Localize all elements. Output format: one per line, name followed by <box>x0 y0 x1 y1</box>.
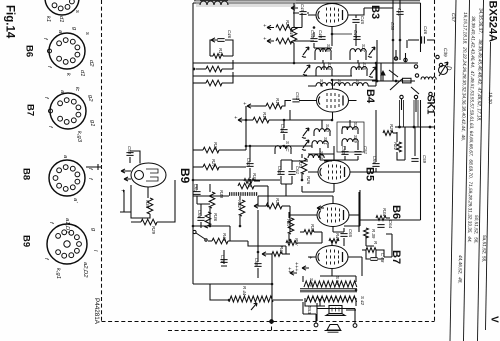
resistor R42 <box>266 246 290 256</box>
svg-text:C40: C40 <box>318 30 323 39</box>
tube socket B7 <box>43 87 95 143</box>
resistor R21 <box>383 124 397 135</box>
svg-text:R24: R24 <box>285 20 290 29</box>
svg-text:C64: C64 <box>388 220 393 229</box>
svg-text:+: + <box>261 37 267 40</box>
svg-text:R38: R38 <box>219 190 224 199</box>
capacitor C46a <box>217 39 224 42</box>
node dot rail A <box>193 68 196 71</box>
tube socket B9 (noval with centre spigot) <box>43 218 98 279</box>
svg-text:S15: S15 <box>362 62 367 70</box>
svg-text:R36: R36 <box>213 213 218 222</box>
resistor R34 with C64 <box>376 208 393 229</box>
svg-text:R36: R36 <box>145 200 150 209</box>
resistor R34 <box>364 228 376 239</box>
svg-text:C50: C50 <box>127 146 132 155</box>
rail y180 <box>193 179 280 181</box>
svg-text:S38: S38 <box>353 122 358 130</box>
arrow to AVC <box>211 38 218 42</box>
svg-text:R42: R42 <box>279 246 284 255</box>
svg-text:R32: R32 <box>237 200 242 209</box>
halftone patch over aerial coil <box>196 0 296 7</box>
svg-text:C50: C50 <box>310 30 315 39</box>
svg-text:C62: C62 <box>246 158 251 167</box>
svg-text:ic: ic <box>74 87 80 91</box>
svg-text:S NC: S NC <box>285 141 290 152</box>
ruler line 3 <box>478 0 484 341</box>
terminal right <box>353 324 357 328</box>
resistor R30 <box>244 173 260 183</box>
svg-text:C69: C69 <box>254 258 259 267</box>
resistor R22 vertical <box>393 132 405 160</box>
svg-text:RW: RW <box>294 238 299 246</box>
svg-text:B9: B9 <box>21 235 32 247</box>
svg-text:R34: R34 <box>382 208 387 217</box>
resistor R10 <box>196 68 206 70</box>
svg-text:R 39: R 39 <box>371 229 376 239</box>
capacitor C63 <box>193 184 201 204</box>
label B7 <box>390 250 402 264</box>
svg-text:R14: R14 <box>262 112 267 121</box>
output transformer primary <box>304 281 357 287</box>
magic eye B9 <box>121 151 166 196</box>
B5 screen wire <box>358 192 360 232</box>
resistor R43 <box>208 233 248 244</box>
set type BX524A <box>487 1 499 43</box>
ruler line 4 <box>486 42 491 330</box>
ruler line 2 <box>464 0 470 341</box>
svg-text:C57: C57 <box>451 13 456 22</box>
svg-text:SK1: SK1 <box>425 95 436 115</box>
capacitor C69 <box>254 252 262 278</box>
IF can S38/S39 <box>342 122 358 146</box>
wire C45 down to can S17 <box>355 30 357 46</box>
svg-text:R43: R43 <box>222 233 227 242</box>
capacitor C40 <box>318 30 326 39</box>
trimmer on S40 <box>302 128 309 138</box>
svg-text:C59: C59 <box>422 155 427 164</box>
chassis dashed border bottom <box>102 321 435 323</box>
svg-text:C66: C66 <box>197 210 202 219</box>
resistor R39 <box>362 241 384 257</box>
capacitor C54 <box>280 120 288 140</box>
resistor R41 <box>286 238 299 246</box>
output transformer secondary <box>306 296 357 302</box>
resistor R26 <box>193 142 246 153</box>
small coils S10 S5 S9 <box>316 79 368 87</box>
triode B3 <box>308 4 356 35</box>
svg-text:R26: R26 <box>306 176 311 185</box>
svg-text:S53: S53 <box>307 306 312 314</box>
resistor R37 vertical <box>286 212 294 240</box>
svg-text:B6: B6 <box>390 205 402 219</box>
svg-text:D: D <box>445 66 451 71</box>
connecting wires bottom <box>210 254 356 322</box>
svg-text:R22: R22 <box>393 142 398 151</box>
svg-text:Fig.14: Fig.14 <box>4 5 16 39</box>
label B6 <box>390 205 402 219</box>
rail y230 <box>193 226 230 241</box>
svg-text:B5: B5 <box>364 167 376 181</box>
resistor R24 with + feed <box>261 13 302 30</box>
wire B3 anode to C48 line <box>348 8 393 15</box>
svg-text:k1: k1 <box>45 16 51 22</box>
wave switch SK1 <box>372 40 443 128</box>
socket label B8 <box>21 168 32 180</box>
SK1 wiper line <box>389 70 398 77</box>
dashed mains lead <box>168 322 318 331</box>
svg-text:B7: B7 <box>25 104 36 116</box>
resistor R27 <box>193 159 246 170</box>
svg-text:R29: R29 <box>151 226 156 235</box>
capacitor C61 <box>288 160 300 184</box>
misc verticals <box>197 186 384 259</box>
label B4 <box>364 89 376 104</box>
svg-text:a2,D2: a2,D2 <box>82 262 88 278</box>
label S42 <box>360 296 365 306</box>
junction dot on dashed border <box>270 320 274 324</box>
label SK1 <box>425 95 436 115</box>
resistor R14 with + feed <box>232 110 290 123</box>
SK1 up arrow <box>380 70 386 81</box>
svg-text:C48: C48 <box>397 8 402 17</box>
svg-text:C65: C65 <box>348 229 353 238</box>
terminal left <box>314 323 318 327</box>
feed arrows left of transformer <box>286 267 297 275</box>
svg-text:44,46,52, 48,: 44,46,52, 48, <box>457 255 462 284</box>
svg-text:S40: S40 <box>325 124 330 132</box>
wire junction x246 <box>245 106 247 150</box>
resistor R38 vertical <box>209 184 224 214</box>
resistor R40 vertical <box>293 3 295 27</box>
supply rail +A <box>193 62 418 64</box>
wire C50a down to S16 <box>314 48 332 52</box>
svg-text:C54: C54 <box>280 124 285 133</box>
svg-text:V: V <box>489 316 500 323</box>
ground arrow R42 <box>262 252 269 256</box>
svg-text:B9: B9 <box>178 168 192 184</box>
label B3 <box>369 5 381 19</box>
antenna line C58 <box>390 0 395 70</box>
svg-text:R 44: R 44 <box>242 286 247 296</box>
transformer core <box>300 289 357 292</box>
svg-text:S17: S17 <box>361 44 366 52</box>
capacitor C50b <box>126 146 133 163</box>
wire B7 anode riser <box>386 234 392 257</box>
speaker <box>325 325 342 333</box>
svg-text:C61: C61 <box>295 166 300 175</box>
IF can S14/S15 <box>316 62 367 76</box>
plus mark eye <box>119 189 125 193</box>
resistor R28 label <box>306 176 311 185</box>
capacitor C68 <box>370 253 385 263</box>
wire x246 osc node <box>245 106 247 120</box>
wire B5 bottom <box>302 186 334 192</box>
capacitor C60 <box>277 160 285 184</box>
capacitor C62 <box>246 146 254 178</box>
wire C60/C61 tops <box>281 160 292 196</box>
label S53 <box>307 306 312 314</box>
volume pot R44 wiper <box>242 286 257 310</box>
capacitor C47 <box>353 30 361 39</box>
resistor R16 <box>193 82 206 84</box>
wire left border bottom <box>193 283 272 285</box>
capacitor C66b <box>372 110 380 172</box>
svg-text:C63: C63 <box>193 184 198 193</box>
ruler line 1 <box>450 0 456 341</box>
wire coil row3 links <box>308 63 376 86</box>
svg-text:C58: C58 <box>390 22 395 31</box>
svg-text:R27: R27 <box>211 159 216 168</box>
oscillator coil S NC <box>275 141 291 154</box>
chassis dashed border left vertical <box>101 0 103 322</box>
svg-text:g2: g2 <box>87 95 93 102</box>
svg-text:C70: C70 <box>220 255 225 264</box>
resistor R36 vertical <box>131 185 153 218</box>
resistor R29 <box>120 180 175 235</box>
svg-text:a1,D1: a1,D1 <box>64 218 70 233</box>
gram switch contact <box>193 230 207 241</box>
svg-text:R40: R40 <box>289 29 294 38</box>
wire B4 bottom rail <box>284 119 333 121</box>
svg-text:C66: C66 <box>372 156 377 165</box>
aerial coil S1 <box>200 1 228 5</box>
wire B3 grid top <box>331 2 333 5</box>
capacitor C53 <box>285 92 301 102</box>
capacitor C49 <box>291 4 309 14</box>
supply rail +B <box>193 75 352 77</box>
svg-text:k,g1: k,g1 <box>55 268 61 279</box>
secondary tie wire <box>317 303 355 323</box>
tube socket B8 <box>49 155 93 203</box>
wire B5 anode right <box>350 171 421 173</box>
output pentode B7 <box>308 240 362 274</box>
svg-text:+: + <box>307 256 313 259</box>
svg-text:C45: C45 <box>360 16 365 25</box>
capacitor C48 <box>396 0 403 55</box>
chassis dashed border right vertical <box>434 0 436 322</box>
capacitor C59 <box>411 155 427 164</box>
resistor R36b vertical <box>205 212 218 228</box>
svg-text:R26: R26 <box>213 142 218 151</box>
svg-text:50,51,52, 56,: 50,51,52, 56, <box>473 215 478 244</box>
pentode B6 <box>290 196 360 232</box>
label S50 <box>309 276 340 288</box>
svg-text:d1: d1 <box>79 70 85 76</box>
hum coil zigzag <box>229 296 273 302</box>
capacitor C45 <box>352 15 365 30</box>
svg-text:C 68: C 68 <box>380 253 385 263</box>
resistor R17 with AVC loop <box>210 55 213 57</box>
svg-text:g1: g1 <box>89 120 95 126</box>
svg-text:S41: S41 <box>323 137 328 145</box>
wire S14/S15 tops <box>324 63 359 70</box>
label R40 <box>289 29 294 38</box>
SK1 drop wire b <box>414 127 416 156</box>
top border outer line <box>194 0 420 2</box>
svg-text:d2: d2 <box>88 60 94 67</box>
rail y246 <box>248 232 322 246</box>
svg-text:B3: B3 <box>369 5 381 19</box>
resistor R30b <box>238 179 268 189</box>
figure label Fig.14 <box>4 5 16 39</box>
capacitor C50a <box>310 30 318 48</box>
svg-text:R31: R31 <box>275 198 280 207</box>
main frame right border <box>420 3 422 220</box>
svg-text:R40: R40 <box>335 233 340 242</box>
shielded lead (hatched bar) <box>229 192 258 196</box>
tuning dial D <box>439 62 452 76</box>
capacitor C65 <box>340 228 353 244</box>
trimmer on S14 <box>303 65 310 75</box>
capacitor C66 <box>197 210 205 228</box>
svg-text:R15: R15 <box>275 98 280 107</box>
svg-text:C49: C49 <box>300 4 305 13</box>
socket label B6 <box>24 45 35 57</box>
svg-text:19,20: 19,20 <box>488 92 493 104</box>
label R17 C46 <box>218 30 232 57</box>
resistor R33 <box>300 224 322 234</box>
IF can S40/S41 <box>312 124 330 148</box>
wire B7 anode down <box>361 257 363 276</box>
voltage selector <box>326 306 345 316</box>
wire socket B8 to chassis <box>86 164 102 170</box>
svg-text:+: + <box>241 102 247 105</box>
B7 anode wire to frame <box>376 250 392 257</box>
capacitor C50 <box>341 146 349 155</box>
svg-text:R17: R17 <box>218 48 223 57</box>
speaker wires <box>303 302 316 323</box>
svg-text:+++: +++ <box>293 262 299 272</box>
wire S16/S17 bottoms to rail <box>323 60 358 63</box>
capacitor C51 <box>354 146 368 155</box>
svg-text:S39: S39 <box>353 135 358 143</box>
socket label B9 <box>21 235 32 247</box>
svg-text:BX524A: BX524A <box>487 1 499 43</box>
pentode B5 <box>308 154 358 192</box>
SK1 drop wire a <box>404 127 406 160</box>
svg-text:C53: C53 <box>295 92 300 101</box>
resistor R40b <box>329 233 340 243</box>
svg-text:B4: B4 <box>364 89 376 104</box>
IF can S16/S17 top <box>315 34 366 60</box>
trimmer C on S16 <box>302 47 309 57</box>
svg-text:+: + <box>261 24 267 27</box>
volume axis V <box>489 316 500 323</box>
wire B4 top feed <box>333 79 377 81</box>
wire B6 anode <box>349 214 360 216</box>
label B5 <box>364 167 376 181</box>
svg-text:5a,51,52, 56,: 5a,51,52, 56, <box>482 235 487 262</box>
main frame top border with aerial coil <box>193 2 421 4</box>
print code P44281A <box>93 298 100 325</box>
svg-text:C46: C46 <box>227 30 232 39</box>
wire rail y146 <box>246 145 312 147</box>
wire S24 row <box>292 160 332 162</box>
svg-text:C39: C39 <box>443 48 448 57</box>
svg-text:d1: d1 <box>58 16 64 22</box>
arrow feed R31 <box>254 204 261 208</box>
svg-text:S10: S10 <box>319 79 324 87</box>
svg-text:+: + <box>119 189 125 193</box>
oscillator coil S24 <box>308 151 324 159</box>
svg-text:R33: R33 <box>310 224 315 233</box>
rail y196 <box>193 195 333 197</box>
main frame left border <box>192 3 194 284</box>
capacitor C46 line to dial <box>408 26 434 44</box>
B6 frame corner <box>360 190 421 220</box>
resistor R23 vertical <box>298 154 307 180</box>
grid feed arrow B7 <box>302 266 309 270</box>
svg-text:C46: C46 <box>423 26 428 35</box>
svg-text:+: + <box>232 116 238 119</box>
svg-text:B6: B6 <box>24 45 35 57</box>
svg-text:B8: B8 <box>21 168 32 180</box>
socket label B7 <box>25 104 36 116</box>
IF can box S38/S39 <box>337 122 364 152</box>
resistor R31 <box>258 198 290 209</box>
pentode B4 <box>301 80 357 120</box>
trimmer on S41 <box>302 140 309 150</box>
svg-text:C60: C60 <box>277 166 282 175</box>
trimmer C on S17 <box>368 47 375 57</box>
wire B5 top <box>308 146 334 154</box>
tube socket B6 <box>42 27 94 77</box>
resistor R32 vertical <box>237 198 245 222</box>
trimmer on S15 <box>369 67 376 77</box>
svg-text:s: s <box>74 10 80 13</box>
wire can S40 tops <box>320 120 358 160</box>
svg-text:S 42: S 42 <box>360 296 365 306</box>
svg-text:R21: R21 <box>389 124 394 133</box>
wire transformer primary top <box>331 274 333 276</box>
cathode marks +++ <box>293 256 313 272</box>
svg-text:S14: S14 <box>327 62 332 70</box>
tube socket B5 (top, partially cut) <box>45 0 80 22</box>
svg-text:k,g3: k,g3 <box>76 131 82 143</box>
resistor R25 with + feed <box>261 37 314 44</box>
svg-text:++: ++ <box>286 267 292 273</box>
arrow feed B6 grid <box>317 206 324 210</box>
label B9 <box>178 168 192 184</box>
capacitor C70 <box>220 250 228 266</box>
svg-text:P44281A: P44281A <box>93 298 100 325</box>
resistor R15 with + feed <box>241 98 285 109</box>
wire SK1 feeds <box>393 40 407 81</box>
svg-text:s: s <box>84 32 90 35</box>
wire B3 cathode down to S16 can <box>331 27 333 47</box>
